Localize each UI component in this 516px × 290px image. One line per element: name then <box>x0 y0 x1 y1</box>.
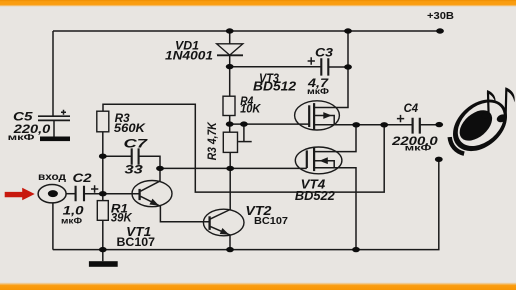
svg-text:BD512: BD512 <box>253 79 297 94</box>
svg-text:33: 33 <box>125 163 144 177</box>
svg-text:R3 4,7K: R3 4,7K <box>207 122 219 161</box>
svg-text:вход: вход <box>38 172 67 183</box>
svg-text:+30В: +30В <box>427 11 454 22</box>
svg-text:мкФ: мкФ <box>307 86 329 96</box>
svg-text:мкФ: мкФ <box>8 132 35 142</box>
svg-text:BC107: BC107 <box>254 215 288 227</box>
svg-text:мкФ: мкФ <box>61 215 82 225</box>
svg-text:BD522: BD522 <box>295 188 335 203</box>
svg-text:10K: 10K <box>240 102 262 116</box>
svg-text:560K: 560K <box>114 121 146 135</box>
svg-text:C3: C3 <box>315 46 333 60</box>
svg-text:C4: C4 <box>404 101 419 115</box>
svg-text:1N4001: 1N4001 <box>165 48 213 62</box>
svg-text:C2: C2 <box>73 171 92 185</box>
svg-text:C7: C7 <box>124 137 150 151</box>
svg-text:BC107: BC107 <box>117 235 156 249</box>
svg-text:мкФ: мкФ <box>405 143 432 153</box>
svg-text:39K: 39K <box>111 211 133 225</box>
